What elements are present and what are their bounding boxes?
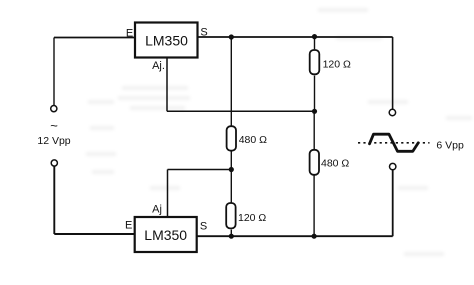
resistor R2 480 ohm middle: [227, 126, 236, 151]
wire top-left from input to E of U1: [54, 37, 135, 39]
output terminal upper: [389, 109, 395, 115]
node B junction right branch: [312, 109, 317, 114]
wire right branch between R1 and node B: [314, 76, 316, 112]
resistor R4 120 ohm middle bottom: [226, 203, 235, 228]
svg-text:480 Ω: 480 Ω: [321, 157, 349, 169]
wire middle branch between node C and R4: [230, 170, 232, 203]
svg-text:Aj: Aj: [152, 204, 162, 216]
input terminal upper: [51, 106, 57, 112]
svg-text:Aj.: Aj.: [152, 60, 165, 72]
waveform clipped sine trace: [370, 134, 419, 151]
op-amp U2 regulator LM350 bottom: [135, 217, 197, 252]
svg-text:S: S: [200, 221, 207, 233]
wire right branch between node B and R3: [313, 111, 315, 150]
svg-text:LM350: LM350: [144, 227, 187, 243]
output terminal lower: [390, 163, 396, 169]
svg-text:120 Ω: 120 Ω: [323, 59, 351, 71]
wire Aj of U2 up: [167, 170, 169, 218]
waveform baseline dotted: [358, 142, 430, 144]
node junction bottom rail x=314: [312, 234, 317, 239]
node C junction middle branch: [229, 167, 234, 172]
wire bottom-left to E of U2: [54, 233, 134, 235]
wire Aj of U1 horizontal to node B: [167, 110, 315, 112]
input terminal lower: [51, 160, 57, 166]
svg-text:120 Ω: 120 Ω: [238, 212, 266, 224]
svg-text:E: E: [126, 27, 133, 39]
op-amp U1 regulator LM350 top: [135, 23, 198, 58]
wire right vertical to upper output: [392, 37, 394, 109]
svg-text:E: E: [125, 220, 132, 232]
wire middle branch lower segment: [230, 230, 232, 236]
wire Aj of U2 horizontal to node C: [168, 169, 232, 171]
wire right branch upper segment: [314, 37, 316, 50]
wire right vertical to lower output: [392, 170, 394, 236]
svg-text:480 Ω: 480 Ω: [239, 134, 267, 146]
node junction top rail x=314: [312, 34, 317, 39]
node junction top rail x=231: [229, 34, 234, 39]
resistor R1 120 ohm right top: [310, 50, 320, 74]
wire bottom rail from S of U2: [197, 235, 393, 237]
svg-text:LM350: LM350: [145, 33, 188, 49]
svg-text:~: ~: [50, 118, 58, 133]
resistor R3 480 ohm right: [310, 150, 319, 175]
svg-text:6 Vpp: 6 Vpp: [436, 140, 464, 152]
wire left vertical upper: [53, 38, 55, 106]
wire left vertical lower: [53, 166, 55, 234]
wire middle branch upper segment: [230, 37, 232, 127]
wire Aj of U1 down: [166, 58, 168, 112]
wire right branch lower segment: [313, 175, 315, 237]
svg-text:12 Vpp: 12 Vpp: [37, 135, 70, 147]
wire top rail from S of U1: [198, 36, 393, 38]
node junction bottom rail x=231: [229, 234, 234, 239]
wire middle branch between R2 and node C: [230, 151, 232, 170]
